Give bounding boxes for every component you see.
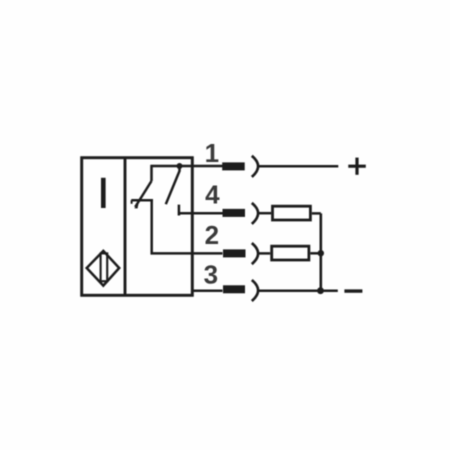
node: bus junction at pin 3 level [317, 287, 324, 294]
inductive sensor diamond symbol [87, 251, 120, 286]
switch NC blade [135, 181, 151, 207]
pin 3 connector bar [223, 285, 245, 293]
switch NO blade [166, 166, 180, 204]
wire: pin 3 to - terminal [259, 289, 338, 292]
diamond inner plate [101, 253, 108, 281]
sensor housing outline [82, 158, 193, 296]
connector arc pin 1 [252, 156, 258, 177]
wire: pin 2 resistor to bus [310, 252, 321, 255]
svg-text:3: 3 [204, 259, 218, 289]
- supply terminal [344, 289, 362, 292]
connector arc pin 4 [252, 203, 258, 224]
load resistor on pin 2 [272, 246, 309, 260]
sensing face bar [101, 178, 106, 208]
svg-text:2: 2 [205, 220, 219, 250]
pin 2 connector bar [223, 249, 246, 257]
wire: pin 4 resistor to bus [312, 212, 321, 215]
wire: common drop to NC blade [150, 165, 153, 181]
bus wire: resistor commons down to minus [319, 213, 322, 290]
NC fixed contact end tick [131, 200, 133, 204]
node: bus junction at pin 2 level [318, 250, 324, 256]
connector arc pin 2 [252, 243, 258, 264]
wire: pin 3 from housing [192, 289, 222, 292]
NC fixed contact bar [131, 199, 153, 202]
svg-text:4: 4 [205, 180, 220, 210]
NC blade arrowhead [134, 204, 138, 209]
wire: pin 4 to load resistor [259, 212, 271, 215]
load resistor on pin 4 [273, 206, 311, 220]
wire: pin 1 to + terminal [259, 165, 339, 168]
pin 1 connector bar [222, 162, 245, 170]
node: junction dot on pin 1 wire [177, 163, 183, 169]
+ supply terminal [348, 165, 366, 168]
connector arc pin 3 [252, 280, 258, 301]
housing compartment divider [124, 158, 127, 296]
svg-text:1: 1 [205, 138, 219, 168]
wire: NO fixed contact to pin 4 [179, 205, 223, 216]
pin 4 connector bar [223, 209, 246, 217]
wire: pin 2 to load resistor [259, 252, 271, 255]
wire: switch common to pin 1 [152, 165, 223, 168]
wire: NC contact to pin 2 [152, 200, 223, 253]
